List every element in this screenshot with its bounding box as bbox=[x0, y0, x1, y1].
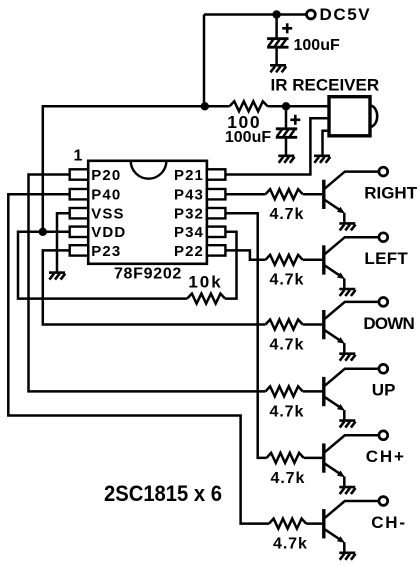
svg-text:DOWN: DOWN bbox=[363, 314, 414, 333]
svg-text:DC5V: DC5V bbox=[320, 5, 372, 24]
svg-text:10k: 10k bbox=[188, 273, 222, 292]
pin P40 bbox=[70, 187, 122, 204]
ground (C2) bbox=[278, 156, 294, 163]
svg-text:VDD: VDD bbox=[91, 224, 126, 241]
resistor R5 4.7k (CH+) bbox=[267, 453, 323, 463]
svg-text:P22: P22 bbox=[174, 243, 204, 260]
terminal DOWN bbox=[379, 298, 388, 307]
svg-text:IR RECEIVER: IR RECEIVER bbox=[271, 75, 380, 94]
capacitor C2 100uF bbox=[276, 106, 301, 155]
transistor Q3 2SC1815 (DOWN) bbox=[324, 302, 378, 353]
ground (Q3 emitter) bbox=[339, 354, 355, 361]
node top rail / C1 bbox=[272, 10, 280, 18]
wire P20 to UP row bbox=[29, 175, 266, 392]
transistor Q5 2SC1815 (CH+) bbox=[324, 435, 378, 486]
svg-text:P40: P40 bbox=[91, 187, 121, 204]
ground (Q4 emitter) bbox=[339, 421, 355, 428]
wire P40 to CH- row bbox=[8, 194, 269, 523]
wire P43 to R1 bbox=[225, 193, 265, 196]
resistor R7 100 bbox=[205, 101, 329, 111]
pin P32 bbox=[174, 206, 225, 223]
pin VDD bbox=[70, 224, 127, 241]
node R7 / C2 / IR Vcc bbox=[282, 102, 290, 110]
ground (Q2 emitter) bbox=[339, 289, 355, 296]
wire IR OUT to P21 bbox=[225, 118, 329, 174]
pin P23 bbox=[70, 243, 122, 260]
ground (Q1 emitter) bbox=[339, 223, 355, 230]
svg-text:VSS: VSS bbox=[91, 206, 124, 223]
resistor R8 10k bbox=[187, 294, 225, 304]
node +5V / R7 bbox=[201, 102, 209, 110]
svg-text:100uF: 100uF bbox=[294, 37, 340, 54]
svg-text:78F9202: 78F9202 bbox=[114, 266, 182, 283]
resistor R3 4.7k (DOWN) bbox=[266, 320, 323, 330]
terminal UP bbox=[379, 364, 388, 373]
wire +5V left drop bbox=[203, 15, 206, 107]
ground (VSS) bbox=[49, 273, 65, 280]
wire P23 to DOWN row bbox=[43, 250, 266, 324]
ground (IR receiver) bbox=[314, 156, 330, 163]
IC U1 pin-1 notch bbox=[131, 161, 167, 179]
wire +5V top rail bbox=[204, 13, 307, 16]
svg-text:P21: P21 bbox=[174, 167, 204, 184]
resistor R4 4.7k (UP) bbox=[266, 386, 323, 396]
wire VSS to ground bbox=[57, 213, 70, 272]
pin P34 bbox=[174, 224, 225, 241]
terminal CH+ bbox=[379, 431, 388, 440]
svg-text:UP: UP bbox=[372, 381, 396, 400]
svg-text:4.7k: 4.7k bbox=[270, 336, 305, 353]
wire P22 to LEFT row bbox=[225, 250, 265, 259]
svg-text:2SC1815 x 6: 2SC1815 x 6 bbox=[104, 481, 222, 506]
resistor R2 4.7k (LEFT) bbox=[266, 255, 323, 265]
wire P34 to R8 10k bbox=[225, 232, 236, 299]
terminal CH- bbox=[379, 497, 388, 506]
pin P22 bbox=[174, 243, 225, 260]
pin P21 bbox=[174, 167, 225, 184]
ground (Q6 emitter) bbox=[339, 553, 355, 560]
svg-text:4.7k: 4.7k bbox=[270, 272, 305, 289]
wire P32 to CH+ row bbox=[225, 213, 266, 458]
wire IR GND drop bbox=[323, 131, 330, 156]
svg-text:CH+: CH+ bbox=[366, 447, 406, 466]
svg-text:4.7k: 4.7k bbox=[270, 403, 305, 420]
pin P43 bbox=[174, 187, 225, 204]
terminal LEFT bbox=[379, 233, 388, 242]
svg-text:P23: P23 bbox=[91, 243, 121, 260]
IR receiver U2 bbox=[329, 97, 377, 136]
capacitor C1 100uF bbox=[267, 15, 292, 65]
svg-text:P34: P34 bbox=[174, 224, 204, 241]
svg-text:RIGHT: RIGHT bbox=[364, 184, 418, 203]
terminal DC5V bbox=[307, 10, 316, 19]
transistor Q4 2SC1815 (UP) bbox=[324, 369, 378, 420]
resistor R1 4.7k (RIGHT) bbox=[266, 189, 323, 199]
svg-text:1: 1 bbox=[74, 148, 83, 165]
IC U1 78F9202 body bbox=[88, 161, 207, 264]
svg-text:100uF: 100uF bbox=[225, 129, 271, 146]
wire VDD to R8 10k bbox=[18, 232, 187, 299]
ground (C1) bbox=[270, 65, 286, 72]
svg-text:LEFT: LEFT bbox=[364, 249, 408, 268]
svg-text:4.7k: 4.7k bbox=[273, 536, 308, 553]
ground (Q5 emitter) bbox=[339, 487, 355, 494]
transistor Q1 2SC1815 (RIGHT) bbox=[324, 172, 378, 223]
pin VSS bbox=[70, 206, 125, 223]
svg-text:4.7k: 4.7k bbox=[270, 206, 305, 223]
wire +5V to VDD rail bbox=[43, 106, 205, 232]
svg-text:P32: P32 bbox=[174, 206, 204, 223]
node VDD / +5V rail bbox=[39, 228, 47, 236]
terminal RIGHT bbox=[379, 167, 388, 176]
svg-text:4.7k: 4.7k bbox=[271, 470, 306, 487]
svg-text:P43: P43 bbox=[174, 187, 204, 204]
pin P20 bbox=[70, 167, 122, 184]
svg-text:CH-: CH- bbox=[371, 513, 407, 532]
transistor Q6 2SC1815 (CH-) bbox=[324, 501, 378, 552]
resistor R6 4.7k (CH-) bbox=[269, 519, 322, 529]
svg-text:P20: P20 bbox=[91, 167, 121, 184]
transistor Q2 2SC1815 (LEFT) bbox=[324, 237, 378, 288]
